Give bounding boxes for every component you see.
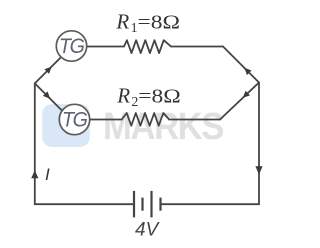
wire right vertical <box>258 83 260 205</box>
wire bottom branch right segment <box>169 119 220 121</box>
wire left vertical <box>34 83 36 204</box>
wire left upper diagonal <box>35 58 60 83</box>
label R2=8ohm <box>116 83 181 110</box>
svg-text:R: R <box>116 83 130 107</box>
galvanometer TG1 <box>56 31 86 61</box>
svg-text:4V: 4V <box>135 220 161 241</box>
label R1=8ohm <box>115 9 180 36</box>
svg-text:I: I <box>45 165 50 184</box>
svg-text:TG: TG <box>59 35 85 58</box>
wire bottom left segment <box>35 203 134 205</box>
watermark logo square <box>42 104 90 147</box>
arrow current left vertical (up) <box>31 170 38 178</box>
wire left lower diagonal <box>35 83 63 111</box>
wire right upper diagonal <box>223 47 259 83</box>
arrow current right lower diagonal (down-left) <box>243 91 250 98</box>
wire right lower diagonal <box>220 83 259 120</box>
svg-text:R: R <box>115 9 129 33</box>
wire top branch left segment <box>87 46 125 48</box>
wire top branch right segment <box>171 46 223 48</box>
resistor R1 <box>124 40 171 53</box>
wire bottom branch left segment <box>90 119 122 121</box>
arrow current left lower diagonal (down-right) <box>43 91 50 98</box>
svg-text:=8Ω: =8Ω <box>138 11 181 33</box>
svg-text:=8Ω: =8Ω <box>138 85 181 107</box>
arrow current right upper diagonal (up-left) <box>244 68 251 75</box>
arrow current left upper diagonal (up-right) <box>44 67 51 74</box>
resistor R2 <box>122 113 170 126</box>
wire bottom right segment <box>161 203 260 205</box>
arrow current right vertical (down) <box>255 166 262 174</box>
battery B1 4V <box>134 191 161 218</box>
svg-text:TG: TG <box>62 109 88 132</box>
galvanometer TG2 <box>59 104 89 134</box>
